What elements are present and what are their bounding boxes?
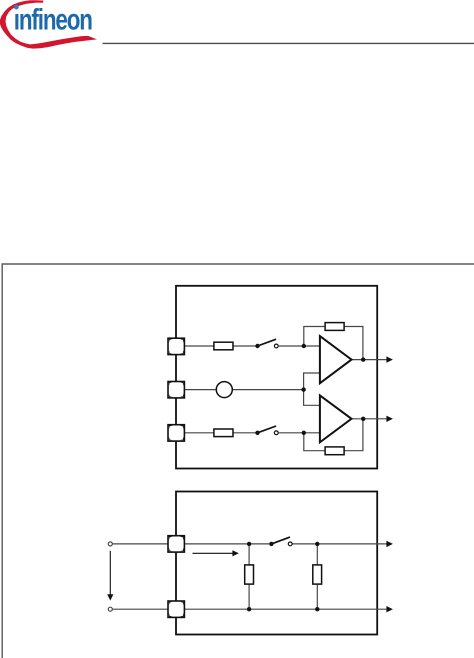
wire node M vertical split bbox=[304, 373, 320, 405]
terminal T1 bbox=[108, 542, 112, 546]
junction node mid bbox=[301, 387, 305, 391]
pad P4 bbox=[168, 536, 184, 552]
figure frame bbox=[2, 264, 474, 658]
wire pad P4 to switch S3 bbox=[185, 543, 270, 545]
wire R6 bottom lead bbox=[316, 584, 318, 609]
feedback wire U1 right bbox=[344, 327, 363, 360]
wire terminal T2 to pad P5 bbox=[113, 608, 168, 610]
terminal T2 bbox=[108, 607, 112, 611]
output arrow 1 bbox=[386, 356, 393, 362]
output wire U2 bbox=[352, 418, 388, 420]
voltage arrow down bbox=[107, 551, 113, 601]
resistor R1 bbox=[214, 342, 233, 350]
wire S1 to op-amp U1 input bbox=[279, 345, 320, 347]
wire R5 top lead bbox=[248, 544, 250, 565]
block 2 IC box bbox=[176, 492, 377, 635]
wire S2 to op-amp U2 input bbox=[279, 432, 320, 434]
output arrow 4 bbox=[386, 606, 393, 612]
junction node row2-left bbox=[247, 607, 251, 611]
feedback wire U2 left bbox=[304, 433, 325, 451]
switch S2 bbox=[255, 426, 278, 435]
feedback wire U2 right bbox=[344, 419, 363, 451]
op-amp U1 bbox=[320, 336, 352, 383]
junction node row1 bbox=[302, 344, 306, 348]
junction node out2 bbox=[361, 417, 365, 421]
op-amp U2 bbox=[320, 395, 352, 442]
pad P1 bbox=[168, 338, 184, 354]
feedback resistor R4 bbox=[325, 447, 344, 455]
feedback wire U1 left bbox=[304, 327, 325, 347]
output arrow 3 bbox=[386, 541, 393, 547]
junction node row2-right bbox=[315, 607, 319, 611]
wire S3 to output row1 bbox=[292, 543, 387, 545]
switch S1 bbox=[255, 339, 278, 348]
wire pad3 to R2 bbox=[185, 432, 214, 434]
feedback resistor R3 bbox=[325, 323, 344, 331]
wire pad1 to R1 bbox=[185, 345, 214, 347]
output arrow 2 bbox=[386, 416, 393, 422]
svg-text:ınfineon: ınfineon bbox=[14, 4, 92, 37]
junction node row1-left bbox=[247, 542, 251, 546]
junction node row1-right bbox=[315, 542, 319, 546]
wire pad2 to current source bbox=[185, 389, 217, 391]
junction node out1 bbox=[361, 357, 365, 361]
pad P5 bbox=[168, 601, 184, 617]
wire terminal T1 to pad P4 bbox=[113, 543, 168, 545]
resistor R6 bbox=[313, 565, 322, 584]
block 1 IC box bbox=[176, 286, 377, 469]
junction node row3 bbox=[302, 431, 306, 435]
switch S3 bbox=[269, 537, 292, 546]
output wire U1 bbox=[352, 359, 388, 361]
infineon logo swoosh bbox=[0, 0, 97, 48]
pad P3 bbox=[168, 425, 184, 441]
current source I1 bbox=[216, 382, 232, 398]
pad P2 bbox=[168, 382, 184, 398]
wire R2 to switch S2 bbox=[233, 432, 256, 434]
wire R5 bottom lead bbox=[248, 584, 250, 609]
resistor R2 bbox=[214, 429, 233, 437]
infineon logo i-dot bbox=[14, 5, 19, 10]
current arrow right bbox=[193, 550, 239, 556]
wire bottom row bbox=[185, 608, 387, 610]
resistor R5 bbox=[245, 565, 254, 584]
wire current source to node M bbox=[232, 389, 303, 391]
header rule bbox=[103, 42, 474, 44]
wire R6 top lead bbox=[316, 544, 318, 565]
wire R1 to switch S1 bbox=[233, 345, 256, 347]
